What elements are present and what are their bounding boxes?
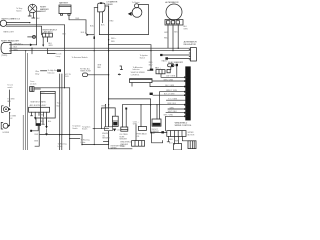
- wire marker drop x36.6: [37, 11, 41, 45]
- label To High Beam Indicator: [57, 69, 61, 71]
- svg-text:TIMES FUSE: TIMES FUSE: [80, 71, 92, 73]
- wire battery positive to relay: [69, 15, 86, 34]
- node dot y50.7 x173: [172, 50, 173, 51]
- sensor connector B2 box: [138, 126, 146, 130]
- connector C5 small: [167, 69, 170, 72]
- divider firewall line 2: [27, 53, 29, 150]
- lamp L3 left park: [2, 106, 11, 113]
- wire wiper lead 4: [182, 136, 188, 140]
- wiper motor connector J2: [167, 131, 186, 137]
- terminal blob: [30, 130, 32, 132]
- wire x101.5 drop: [101, 108, 103, 129]
- wire bar feed y91.7: [160, 92, 188, 119]
- node dot: [9, 112, 10, 113]
- svg-text:Switch: Switch: [82, 128, 87, 131]
- svg-text:BLk: BLk: [48, 121, 51, 123]
- wire horn loop: [99, 5, 148, 35]
- wire bar feed y116.3: [166, 116, 187, 131]
- circuit breaker CB1 box: [152, 119, 161, 126]
- alternator G1: [166, 4, 182, 20]
- svg-text:RADIO: RADIO: [162, 60, 168, 63]
- wire bar lead 3: [39, 112, 44, 116]
- svg-text:GRN: GRN: [34, 140, 39, 142]
- wire vertical x64.6 down: [64, 25, 66, 88]
- svg-text:To Starter: To Starter: [132, 1, 140, 4]
- svg-text:CONTROL: CONTROL: [131, 74, 140, 76]
- svg-text:BLK LT GRN: BLK LT GRN: [164, 94, 175, 96]
- svg-text:C220: C220: [40, 92, 44, 94]
- wire sensor drop x128.4: [125, 109, 127, 127]
- svg-text:ALTERNATOR: ALTERNATOR: [165, 1, 179, 4]
- svg-text:WIPER CONTROL: WIPER CONTROL: [175, 125, 193, 127]
- instrument bar box: [29, 101, 50, 113]
- wire drops below: [60, 135, 62, 150]
- wire relay lead b: [102, 12, 104, 23]
- svg-text:Assy: Assy: [35, 72, 39, 75]
- svg-text:GRN: GRN: [133, 124, 138, 126]
- wire sensor drop x141: [140, 105, 142, 127]
- svg-text:BATTERY: BATTERY: [59, 2, 69, 5]
- wire switch lead 1: [42, 118, 44, 124]
- arrow on wire: [30, 44, 33, 47]
- connector blob: [161, 131, 164, 133]
- horn H1: [128, 4, 142, 18]
- connector C3 on firewall: [30, 87, 34, 92]
- node dot y50.7 x151: [150, 50, 151, 51]
- connector square: [165, 57, 168, 59]
- svg-text:Lights: Lights: [58, 145, 63, 148]
- wire fuse to main: [88, 74, 109, 76]
- wire sensor drop x157: [156, 105, 158, 119]
- node dot: [108, 74, 109, 75]
- wire long vertical x69.7: [69, 88, 71, 150]
- connector box dark bottom: [36, 118, 41, 126]
- wire wiper lead 3: [177, 136, 179, 143]
- svg-text:RUN: RUN: [65, 76, 70, 78]
- svg-text:Lamp: Lamp: [56, 56, 61, 58]
- wire bar lead 2 arrow: [34, 112, 36, 117]
- turn signal switch S1 box: [40, 91, 55, 118]
- splice symbol S with wire: [28, 36, 33, 38]
- wire bar feed y104.7 long: [123, 104, 188, 106]
- wire bar feed y100.2: [166, 99, 185, 101]
- wiper switch box S2: [188, 141, 196, 149]
- wire stub high beam: [41, 70, 47, 72]
- wire to ignition y44.7: [109, 45, 151, 69]
- svg-text:Lights: Lights: [81, 141, 86, 144]
- wire wiper lead 1: [167, 136, 169, 141]
- wire select lead 1 w/ arrow: [42, 37, 44, 45]
- connector C alternator plug: [165, 20, 183, 25]
- arrow connector into relay node: [86, 34, 89, 36]
- wire module stub: [131, 83, 133, 87]
- wire pair turn feed 1: [59, 74, 61, 135]
- svg-text:Indicator: Indicator: [48, 72, 55, 75]
- wire branch down y142.8: [152, 132, 163, 142]
- svg-text:GRN: GRN: [164, 32, 169, 34]
- regulator VR1: [189, 48, 196, 61]
- wire stub arrow left: [119, 73, 121, 75]
- wire y138.4 branch: [70, 137, 80, 139]
- wire washer drop x136: [135, 125, 137, 141]
- wire headlight high beam w/ arrow: [11, 44, 37, 46]
- wire y98.9: [109, 99, 151, 132]
- bulkhead connector J1 black bar: [185, 66, 190, 120]
- svg-text:SENDER: SENDER: [102, 138, 110, 140]
- node dot y50.7 x25.7: [25, 50, 26, 51]
- fuse F1: [82, 73, 87, 77]
- connector blob end: [150, 69, 153, 71]
- wire alt lead 1: [167, 25, 169, 48]
- wire lamp drop: [9, 90, 11, 106]
- svg-text:RELAY: RELAY: [106, 3, 113, 6]
- node junction dot: [29, 22, 30, 23]
- svg-text:Y / LT GRN: Y / LT GRN: [168, 99, 178, 101]
- wire regulator terminal y58.4: [168, 57, 191, 59]
- connector blob: [150, 93, 153, 95]
- washer pump box M3: [132, 141, 145, 147]
- lamp L1 right marker light: [28, 4, 37, 13]
- fuse F2 stadium: [168, 64, 174, 67]
- svg-text:Switch: Switch: [16, 9, 21, 12]
- svg-text:switch: switch: [7, 86, 12, 89]
- lamp L4 horn feed: [1, 122, 10, 129]
- wire y148.8: [109, 145, 132, 149]
- svg-text:SEAT BELT WARN: SEAT BELT WARN: [30, 101, 46, 104]
- wire y107.9: [102, 108, 116, 116]
- node tick on main: [108, 104, 109, 105]
- svg-text:LIGHT: LIGHT: [40, 11, 47, 13]
- washer box small: [174, 144, 182, 151]
- svg-text:ORN / BLK: ORN / BLK: [167, 103, 177, 105]
- wire park light pin 1: [6, 22, 29, 24]
- node dots y104.7: [140, 104, 141, 105]
- svg-text:BLK / GRN: BLK / GRN: [165, 85, 175, 87]
- connector C4: [156, 70, 165, 74]
- wire dark drop: [176, 66, 178, 77]
- svg-text:SENDER: SENDER: [119, 139, 127, 141]
- svg-text:Switch: Switch: [140, 56, 145, 59]
- bar terminal nubs: [184, 77, 185, 116]
- svg-text:BLK +: BLK +: [81, 32, 86, 34]
- svg-text:To Emission Module: To Emission Module: [72, 57, 88, 59]
- wire between lamps: [9, 113, 11, 126]
- wire y132.4 to wiper: [151, 131, 167, 133]
- wire park light pin 2 long to x64.6: [6, 24, 64, 26]
- svg-text:OIL: OIL: [137, 136, 140, 138]
- svg-text:Switch: Switch: [72, 127, 77, 130]
- node dot: [108, 98, 109, 99]
- node dot x64.6: [64, 87, 65, 88]
- node dot y48.2 x32: [31, 48, 32, 49]
- wire stub left edge: [120, 66, 123, 70]
- node dot: [108, 44, 109, 45]
- svg-text:RIGHT HEADLIGHT: RIGHT HEADLIGHT: [1, 39, 20, 42]
- svg-text:Indicator: Indicator: [133, 68, 140, 71]
- wire alt lead 2: [172, 25, 174, 51]
- wire long vertical x94.2: [93, 8, 95, 145]
- svg-text:GRN BLK: GRN BLK: [12, 18, 21, 20]
- node dot y50.7 x94.2: [94, 50, 95, 51]
- svg-text:AND BUZZER ASSY: AND BUZZER ASSY: [30, 104, 47, 107]
- svg-text:Turn: Turn: [57, 103, 61, 105]
- node dot y50.7 x108.6: [108, 50, 109, 51]
- svg-text:WINDSHIELD: WINDSHIELD: [175, 122, 188, 124]
- battery B1: [59, 5, 71, 15]
- wire module right to bar y81: [152, 80, 187, 82]
- wire park light pin 3: [6, 26, 41, 35]
- wire drop to oil box: [105, 105, 107, 127]
- connector blob on vertical: [94, 36, 96, 39]
- wire stub x32 down: [31, 48, 33, 54]
- wire module bottom to bar y86.6: [150, 83, 187, 87]
- svg-text:GRN / ORN: GRN / ORN: [163, 79, 173, 81]
- wire y141.4 stub: [103, 140, 108, 142]
- wire y128.7: [93, 128, 109, 130]
- svg-text:(TURN): (TURN): [1, 55, 8, 57]
- svg-text:GRN: GRN: [170, 107, 175, 109]
- wire alt lead 3: [177, 25, 179, 48]
- node dot y144.6: [94, 144, 95, 145]
- wire bar lead 1: [31, 112, 33, 116]
- wire bar feed y95.2: [153, 94, 187, 96]
- svg-text:PARK LIGHT: PARK LIGHT: [3, 30, 14, 33]
- wire fuse2 down: [170, 67, 172, 70]
- svg-text:WIPER: WIPER: [111, 147, 118, 149]
- node dot RED tap: [108, 39, 109, 40]
- wire select lead 2: [46, 37, 48, 42]
- relay U1 starter relay dome: [98, 2, 105, 12]
- svg-text:on dash: on dash: [30, 83, 36, 85]
- wire relay right to main vertical: [105, 5, 109, 7]
- svg-text:ORN: ORN: [183, 29, 188, 31]
- svg-text:C216: C216: [117, 130, 121, 132]
- lamp L2 right park light: [0, 20, 7, 26]
- wire wiper lead 2: [173, 136, 175, 144]
- node dot y48.2 x178.2: [178, 48, 179, 49]
- wire to left lamp: [47, 49, 55, 54]
- speed control module M2 bar: [130, 79, 152, 83]
- wire long BRN y50.7 to regulator: [11, 50, 190, 52]
- svg-text:C/B Y GRN: C/B Y GRN: [166, 76, 176, 78]
- svg-text:GRN: GRN: [48, 45, 53, 47]
- connector blob top: [125, 108, 127, 110]
- wire stub at blob: [148, 69, 153, 71]
- connector C7 inline: [112, 116, 118, 126]
- wire long BLK y48.2 to regulator: [11, 47, 190, 49]
- svg-text:HORNS: HORNS: [3, 132, 10, 134]
- headlight E1: [1, 42, 11, 53]
- wire lead L1 left pin: [28, 12, 31, 16]
- svg-text:MOTOR: MOTOR: [188, 134, 195, 136]
- svg-text:GRY / ORN: GRY / ORN: [163, 115, 173, 117]
- wire firewall jumper y87.8: [34, 87, 70, 89]
- wire bar feed y112.7: [166, 112, 187, 114]
- svg-text:REGULATOR: REGULATOR: [184, 43, 197, 46]
- wire arrow to x94.2: [89, 34, 94, 36]
- svg-text:BRN LT GRN: BRN LT GRN: [166, 90, 177, 92]
- node dots on y134.6: [59, 134, 60, 135]
- sensor connector B0 engine oil: [105, 127, 113, 131]
- wire sensor drop x125: [122, 105, 124, 127]
- wire from box down-left: [31, 126, 38, 131]
- wire lead L1 right pin: [32, 12, 35, 18]
- connector C2 right select block: [42, 29, 57, 37]
- wire connector to switch box: [34, 88, 40, 90]
- connector dark block: [176, 64, 178, 66]
- wire main vertical x108.6: [108, 6, 110, 145]
- wire pair turn feed 2: [61, 74, 63, 135]
- wire bar feed y77.3: [161, 74, 187, 78]
- wire bar lead 4: [46, 112, 48, 126]
- connector blob: [160, 54, 162, 56]
- svg-text:WHT / BLK: WHT / BLK: [168, 111, 178, 113]
- ground arrow under switch: [45, 133, 47, 136]
- node dot: [105, 104, 106, 105]
- sensor connector B1 box: [121, 127, 128, 131]
- arrow blob below: [113, 129, 116, 132]
- wire regulator terminal y55: [161, 54, 191, 56]
- wire parallel firewall bottom: [22, 115, 24, 150]
- wire long horizontal y134.6: [40, 135, 109, 145]
- divider firewall line 1: [25, 51, 27, 150]
- svg-text:BLK +: BLK +: [155, 67, 161, 69]
- wire hook bottom: [35, 126, 39, 147]
- wire relay top link: [94, 7, 98, 9]
- wire bar feed y109: [168, 108, 187, 110]
- wire relay lead a: [98, 12, 100, 35]
- wire switch lead 2 arrow: [46, 118, 48, 126]
